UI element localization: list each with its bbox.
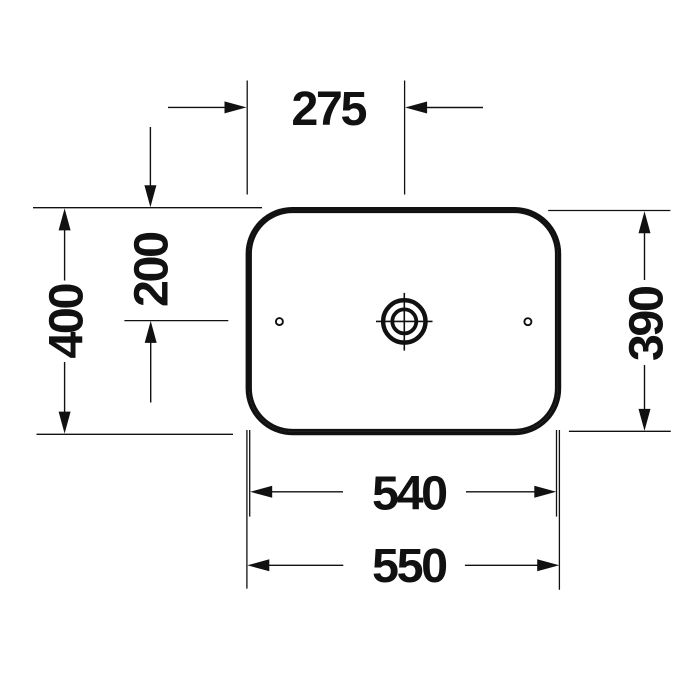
dim 275: right extension line [404,81,406,195]
dim 540: right shaft [466,491,536,493]
dim 390: top extension line [548,210,670,212]
svg-text:540: 540 [372,467,446,521]
dim 540: right arrowhead [534,486,556,498]
dim 540: left arrowhead [250,486,272,498]
dim 400: upper shaft [64,229,66,281]
dim 200: bottom arrowhead [145,321,157,343]
drain inner circle [392,309,416,333]
dim 275: left arrowhead [225,101,247,113]
drain outer circle [383,300,425,342]
dim 275: right arrow shaft [426,107,483,109]
dim 550: left extension line [246,430,248,589]
dim 540: right extension line [556,430,558,517]
dim 550: right arrowhead [537,559,559,571]
dim 390: bottom arrowhead [639,409,651,431]
dim 540: left shaft [271,491,343,493]
dim 400: lower shaft [64,362,66,413]
dim 400: bottom extension line [37,433,234,435]
left fixing hole [276,318,283,325]
svg-text:275: 275 [291,82,366,136]
dim 275: right arrowhead [405,102,427,114]
dim 200: bottom arrow shaft [150,341,152,403]
dim 540: left extension line [249,430,251,517]
washbasin inner rim line (540x390) [250,212,556,431]
dim 275: left arrow shaft [168,106,226,108]
washbasin outer outline (550x400) [247,209,559,434]
dim 400: top arrowhead [59,208,71,230]
dim 550: left arrowhead [247,559,269,571]
dim 400: bottom arrowhead [59,412,71,434]
drain crosshair horizontal [376,320,433,322]
svg-text:400: 400 [39,285,93,359]
right fixing hole [524,318,531,325]
dim 390: bottom extension line [569,430,671,432]
dim 550: right shaft [465,564,538,566]
svg-text:550: 550 [372,539,446,593]
svg-text:200: 200 [124,233,178,307]
dim 390: top arrowhead [639,211,651,233]
dim 390: upper shaft [644,232,646,280]
dim 200: extension line at drain level [124,320,228,322]
svg-text:390: 390 [620,287,674,361]
dim 200: top arrowhead [144,185,156,207]
dim 550: left shaft [268,564,343,566]
dim 390: lower shaft [644,365,646,410]
dim 400: top extension line [33,207,262,209]
dim 200: top arrow shaft [149,127,151,187]
dim 275: left extension line [246,81,248,195]
dim 550: right extension line [558,430,560,590]
drain crosshair vertical [403,293,405,351]
